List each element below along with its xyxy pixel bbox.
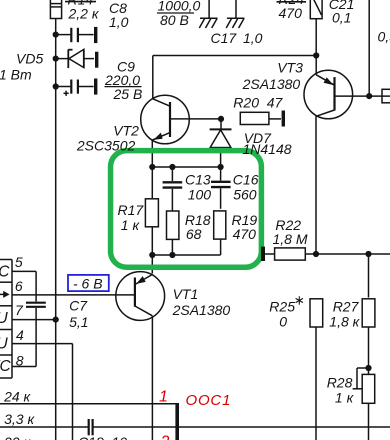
svg-text:25 В: 25 В — [113, 86, 143, 102]
svg-text:1 Вт: 1 Вт — [0, 67, 32, 83]
svg-text:5,1: 5,1 — [69, 314, 88, 330]
wire right vertical (C21 branch) — [368, 0, 370, 96]
wire R22 row to right edge — [316, 253, 390, 255]
label VT1 2SA1380 — [172, 286, 231, 318]
diode VD7 — [210, 119, 232, 167]
capacitor C8 — [56, 27, 96, 43]
label OOC1 (red) — [186, 392, 232, 409]
wire green box top — [152, 166, 220, 168]
svg-text:470: 470 — [233, 226, 257, 242]
label R24 470 — [279, 0, 305, 21]
label box -6 В — [68, 275, 109, 292]
wire top horizontal to VT3 — [153, 56, 316, 99]
label C13 100 — [185, 171, 211, 202]
resistor R22 — [263, 247, 316, 261]
resistor (cut at right edge) — [382, 89, 390, 103]
pin 8 wire — [12, 366, 36, 368]
label 1000,0/80 В — [158, 0, 201, 28]
svg-text:2: 2 — [160, 434, 170, 440]
transistor VT2 — [141, 95, 221, 167]
pin numbers 5 6 7 4 8 — [15, 254, 24, 368]
wire thick vertical (OOC1) — [175, 403, 179, 440]
svg-text:С: С — [0, 264, 10, 281]
svg-text:1,8 к: 1,8 к — [329, 314, 360, 330]
label VD5 1 Вт — [0, 51, 43, 83]
svg-text:0: 0 — [279, 314, 287, 330]
label C7 5,1 — [69, 298, 88, 331]
node dot R20/VD7 — [218, 116, 224, 122]
capacitor C18 (on bottom wire) — [89, 419, 93, 435]
label 22 к (cut at bottom) — [3, 434, 31, 440]
svg-text:1 к: 1 к — [335, 390, 355, 406]
label 0,5 (cut at edge) — [378, 29, 390, 45]
label 1 (red) — [159, 389, 168, 406]
svg-text:VT3: VT3 — [277, 60, 303, 76]
resistor R17 — [145, 167, 158, 255]
label C16 560 — [233, 171, 259, 202]
node dot R25 top — [313, 251, 319, 257]
svg-text:- 6 В: - 6 В — [73, 276, 103, 292]
svg-text:2SA1380: 2SA1380 — [242, 76, 301, 92]
svg-text:24 к: 24 к — [3, 388, 31, 404]
label VT3 2SA1380 — [242, 60, 303, 93]
wire green box bottom — [152, 254, 220, 256]
svg-text:2SA1380: 2SA1380 — [172, 302, 231, 318]
label C17 1,0 — [211, 30, 263, 46]
wire left main vertical — [55, 19, 57, 440]
capacitor C7 — [26, 303, 46, 367]
capacitor C16 — [211, 167, 231, 209]
svg-text:С18 10: С18 10 — [78, 434, 127, 440]
svg-text:C7: C7 — [69, 298, 88, 314]
svg-text:560: 560 — [233, 187, 257, 203]
svg-text:0,1: 0,1 — [332, 10, 351, 26]
svg-text:R27: R27 — [333, 299, 360, 315]
svg-text:C16: C16 — [233, 171, 259, 187]
ground symbol 2 — [226, 0, 244, 28]
resistor R14 — [50, 0, 61, 19]
svg-text:R17: R17 — [118, 202, 145, 218]
label R27 1,8 к — [329, 299, 360, 330]
transistor VT1 — [12, 255, 165, 440]
svg-text:1,8 М: 1,8 М — [273, 231, 308, 247]
svg-text:R28: R28 — [327, 374, 353, 390]
svg-text:22 к: 22 к — [3, 434, 31, 440]
IC pin letters — [0, 264, 11, 376]
svg-text:U: U — [0, 336, 9, 353]
label R18 68 — [185, 212, 211, 242]
node dot pin7/left wire — [53, 317, 59, 323]
svg-text:2,2 к: 2,2 к — [68, 6, 100, 22]
svg-text:1 к: 1 к — [121, 217, 141, 233]
svg-text:C17: C17 — [211, 30, 238, 46]
resistor R24 (struck out) — [310, 0, 322, 56]
label C9 220,0/25 В — [104, 59, 142, 103]
svg-text:2SC3502: 2SC3502 — [76, 137, 136, 153]
resistor R19 — [214, 211, 226, 255]
capacitor C13 — [163, 167, 183, 211]
svg-text:100: 100 — [188, 187, 212, 203]
node dot VT3 base / right wire — [366, 93, 372, 99]
pin 7 wire — [12, 319, 56, 321]
wire OOC1 horizontal — [0, 403, 177, 405]
svg-text:VD5: VD5 — [16, 51, 43, 67]
highlight green box — [111, 151, 262, 268]
resistor R27 — [362, 254, 375, 368]
pin arrow (pin 6) — [0, 291, 10, 298]
wire bottom horizontal — [0, 426, 390, 428]
label R25 * 0 — [269, 296, 303, 329]
svg-text:1: 1 — [159, 389, 168, 406]
svg-text:VT1: VT1 — [173, 286, 199, 302]
svg-text:68: 68 — [186, 226, 202, 242]
zener diode VD5 — [56, 49, 97, 68]
node dot R27 top — [365, 251, 371, 257]
label 24 к — [3, 388, 31, 404]
capacitor C9 (electrolytic) — [56, 79, 96, 96]
svg-text:0,5: 0,5 — [378, 29, 390, 45]
label R17 1 к — [118, 202, 145, 233]
label C18 10 (cut at bottom) — [78, 434, 127, 440]
svg-text:1N4148: 1N4148 — [243, 141, 292, 157]
node dot R27/R28 junction — [365, 365, 371, 371]
label C21 0,1 — [329, 0, 355, 26]
label R14 (struck out) — [65, 0, 100, 22]
ground symbol 1 — [199, 0, 217, 28]
svg-text:5: 5 — [15, 254, 23, 270]
IC box edge (left connector block) — [0, 260, 12, 379]
svg-text:VT2: VT2 — [113, 123, 139, 139]
node dots bottom wire — [149, 252, 175, 258]
resistor R25 — [310, 299, 323, 440]
node dots top wire — [149, 164, 224, 170]
label R28 1 к — [327, 374, 355, 405]
svg-text:1,0: 1,0 — [243, 30, 263, 46]
label 3,3 к — [4, 411, 35, 427]
potentiometer R28 — [353, 368, 375, 440]
pin 4 wire — [12, 344, 73, 440]
svg-text:6: 6 — [15, 278, 23, 294]
label R20 47 — [233, 95, 283, 111]
svg-text:7: 7 — [15, 302, 24, 318]
node dot at top wire / R24 — [313, 52, 319, 58]
svg-text:3,3 к: 3,3 к — [4, 411, 35, 427]
pin 5 wire to C7 — [12, 271, 36, 301]
svg-text:1,0: 1,0 — [109, 14, 129, 30]
svg-text:ООС1: ООС1 — [186, 392, 232, 409]
transistor VT3 — [304, 56, 390, 255]
resistor R18 — [167, 211, 179, 255]
label VT2 2SC3502 — [76, 123, 139, 154]
label R19 470 — [232, 212, 258, 242]
label 2 (red, cut at bottom) — [160, 434, 170, 440]
svg-text:R25: R25 — [269, 299, 295, 315]
svg-text:470: 470 — [279, 5, 303, 21]
label C8 — [109, 0, 129, 30]
svg-text:ТС: ТС — [0, 358, 11, 375]
svg-text:U: U — [0, 310, 9, 327]
node junction dots left wire — [53, 31, 59, 89]
svg-text:R20 47: R20 47 — [233, 95, 283, 111]
resistor R20 — [240, 111, 283, 127]
label VD7 1N4148 — [243, 130, 292, 157]
label R22 1,8 М — [273, 217, 308, 247]
svg-text:C13: C13 — [185, 171, 211, 187]
svg-text:80 В: 80 В — [160, 12, 189, 28]
svg-text:4: 4 — [16, 327, 24, 343]
